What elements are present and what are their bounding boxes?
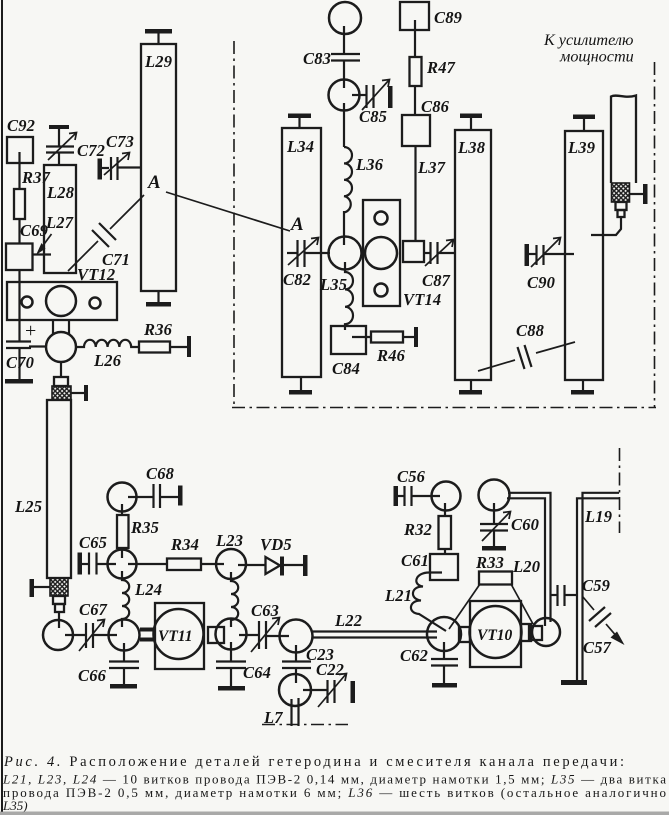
capacitor C88 plates: [518, 347, 525, 369]
coil from L23 down: [231, 572, 238, 627]
VT12 leads to can: [52, 320, 54, 334]
svg-text:A: A: [147, 172, 161, 193]
VT11 right pad: [208, 627, 224, 643]
diode VD5: [266, 557, 281, 574]
svg-text:L19: L19: [584, 507, 612, 526]
svg-text:C90: C90: [527, 273, 555, 292]
trimmer C82 plates: [296, 240, 298, 267]
capacitor C71 plates: [92, 230, 109, 247]
coil L23 cup: [216, 549, 246, 579]
transistor VT10 body: [470, 606, 522, 658]
trimmer C85 plates: [365, 85, 367, 108]
dash-dot fragment right: [619, 448, 621, 533]
trimmer C60 wire: [493, 503, 495, 524]
VT10 left pad: [459, 627, 470, 642]
svg-text:L37: L37: [417, 158, 446, 177]
svg-text:C83: C83: [303, 49, 331, 68]
shield can L29: [141, 44, 176, 291]
svg-text:C63: C63: [251, 601, 279, 620]
capacitor C56 plates: [403, 486, 405, 506]
svg-text:C64: C64: [243, 663, 271, 682]
svg-text:L38: L38: [457, 138, 485, 157]
coax L25 bottom neck: [53, 596, 65, 604]
wire C90 to L39: [544, 253, 575, 255]
wire R32 to C61: [444, 549, 446, 554]
VT14 plate top hole: [375, 212, 388, 225]
svg-text:C86: C86: [421, 97, 450, 116]
capacitor C65 wire: [97, 563, 117, 565]
dash-dot frame bottom side: [232, 407, 656, 409]
wire node A to VT12 via C71: [110, 195, 144, 229]
svg-text:провода ПЭВ-2 0,5 мм, диаметр: провода ПЭВ-2 0,5 мм, диаметр намотки 6 …: [3, 785, 666, 800]
capacitor C63 plates: [258, 621, 260, 649]
transistor VT12 can: [46, 332, 76, 362]
capacitor C62 wire: [443, 642, 445, 659]
capacitor C67 wire: [65, 634, 86, 636]
svg-text:L27: L27: [45, 213, 74, 232]
twin lead L19: [583, 493, 620, 680]
trimmer C90 arrow: [531, 238, 560, 267]
transistor VT10 plate: [470, 601, 521, 667]
coax L25 bottom knurl (hatched): [50, 578, 68, 596]
wire C62 to ground: [443, 665, 445, 683]
svg-text:L23: L23: [215, 531, 243, 550]
trimmer C90 plates: [535, 245, 537, 265]
terminal of R46: [414, 327, 418, 347]
wire C83 down: [343, 61, 345, 88]
coil cup above C60: [479, 480, 510, 511]
ground of L34: [300, 377, 302, 390]
diode VD5 terminal: [303, 555, 308, 576]
capacitor C68 terminal: [178, 486, 183, 506]
coil under L35: [345, 262, 353, 330]
capacitor C57 arrowhead: [611, 632, 625, 646]
inductor L24: [122, 571, 129, 627]
wire C73 to L29: [118, 166, 142, 168]
trimmer C72 terminal: [49, 125, 69, 129]
L39 top terminal: [573, 115, 595, 120]
wire R36 to terminal: [170, 346, 187, 348]
capacitor C57 wire: [583, 597, 594, 610]
coil cup second: [329, 80, 360, 111]
svg-text:L20: L20: [512, 557, 540, 576]
VT14 transistor body: [365, 237, 397, 269]
svg-text:C84: C84: [332, 359, 360, 378]
wire C87 to L38: [438, 252, 457, 254]
shield can L28: [44, 165, 76, 273]
wire R46 to terminal: [403, 336, 415, 338]
svg-text:C73: C73: [106, 132, 134, 151]
svg-text:C88: C88: [516, 321, 544, 340]
transistor VT14 mounting plate: [363, 200, 400, 306]
inductor L21: [411, 573, 446, 632]
wire R47 to C86: [414, 86, 416, 115]
ground of C64: [218, 686, 245, 691]
resistor R34: [167, 559, 201, 571]
svg-text:C61: C61: [401, 551, 429, 570]
transistor VT11 plate: [155, 603, 204, 669]
coil cup left of VT11: [109, 620, 140, 651]
svg-text:C65: C65: [79, 533, 107, 552]
trimmer C85 arrow: [362, 80, 389, 110]
terminal of R36: [187, 336, 191, 357]
coax to PA neck: [616, 202, 627, 210]
svg-text:L34: L34: [286, 137, 314, 156]
VT10 right leads: [521, 624, 531, 641]
scan edge grey bar: [0, 812, 669, 815]
resistor R46: [371, 332, 403, 343]
capacitor C63 arrow: [251, 618, 279, 652]
capacitor C68 plates: [152, 484, 154, 508]
svg-text:C57: C57: [583, 638, 612, 657]
wire R33 left lead: [449, 584, 480, 629]
svg-text:C72: C72: [77, 141, 105, 160]
svg-text:R34: R34: [170, 535, 199, 554]
capacitor C56 terminal: [394, 486, 399, 506]
coil L35 cup: [329, 237, 362, 270]
trimmer C82 arrow: [288, 238, 318, 265]
mixer cup C62: [427, 617, 461, 651]
wire C82 to L35: [305, 252, 331, 254]
capacitor C84: [331, 326, 366, 354]
twin lead from cup to VT10 right cup: [508, 493, 551, 622]
wire L36 to L35: [343, 211, 345, 245]
diode VD5 wire2: [284, 564, 303, 566]
svg-text:L28: L28: [46, 183, 74, 202]
coil cup top: [329, 2, 361, 34]
wire C92 to R37: [18, 152, 20, 190]
capacitor C69: [6, 244, 33, 271]
coil cup right of VT10: [532, 618, 560, 646]
trimmer C87 wire: [424, 252, 431, 254]
resistor R32: [439, 516, 452, 549]
capacitor C66 plates: [109, 660, 139, 662]
svg-text:VT10: VT10: [477, 627, 513, 644]
dash-dot frame right side: [654, 62, 656, 407]
inductor L36: [344, 147, 352, 212]
svg-text:C62: C62: [400, 646, 428, 665]
capacitor C22 plates: [326, 680, 328, 703]
diode VD5 wire: [238, 564, 266, 566]
wire VT12 to C70: [29, 345, 46, 347]
shield can L34: [282, 128, 321, 377]
capacitor C59 wire: [551, 594, 558, 596]
wire R33 right lead (L20): [511, 584, 533, 624]
terminal left of L25 bottom: [30, 579, 35, 597]
shield can L39: [565, 131, 603, 380]
capacitor C23 plates: [282, 660, 311, 662]
svg-text:C82: C82: [283, 270, 311, 289]
capacitor C63 wire2: [266, 635, 289, 637]
svg-text:C85: C85: [359, 107, 387, 126]
dash-dot frame left side: [233, 41, 235, 407]
svg-text:мощности: мощности: [559, 48, 634, 66]
trimmer C90 terminal: [525, 244, 530, 266]
svg-text:C59: C59: [582, 576, 610, 595]
coil cup above R32: [432, 482, 461, 511]
coax plug collar: [54, 377, 68, 386]
capacitor C62 plates: [431, 658, 458, 660]
capacitor C73 arrow: [104, 153, 129, 175]
coil cup above R35: [108, 483, 137, 512]
resistor R36: [139, 342, 170, 353]
capacitor C65 plates: [88, 553, 90, 575]
capacitor C57 plates: [589, 607, 605, 621]
VT12 plate centre hole: [46, 286, 76, 316]
svg-text:L21: L21: [384, 586, 412, 605]
coil cup right of VT11: [216, 619, 247, 650]
wire cup2 to R34: [128, 563, 167, 565]
svg-text:VT14: VT14: [403, 290, 441, 309]
trimmer C82 wire stub: [287, 252, 298, 254]
capacitor C67 plates: [85, 623, 87, 648]
svg-text:A: A: [290, 214, 304, 235]
terminal right of coax plug: [71, 392, 84, 394]
ground of C66: [110, 684, 137, 689]
wire C60 to ground: [493, 530, 495, 546]
shield can L38: [455, 130, 491, 380]
capacitor C64 plates: [216, 660, 246, 662]
dash-dot fragment below L7: [262, 724, 348, 726]
coax plug knurl (hatched): [52, 386, 71, 400]
ground of C62: [432, 683, 457, 688]
wire cup to R35: [121, 504, 123, 515]
capacitor C65 terminal: [78, 553, 83, 575]
svg-text:L29: L29: [144, 52, 172, 71]
wire cup to R32: [444, 503, 446, 516]
resistor R37: [14, 189, 25, 219]
svg-text:R46: R46: [376, 346, 406, 365]
svg-text:L35: L35: [319, 275, 347, 294]
svg-text:L25: L25: [14, 497, 42, 516]
svg-text:C56: C56: [397, 467, 426, 486]
transistor VT11 body: [154, 609, 204, 659]
svg-text:L24: L24: [134, 580, 162, 599]
trimmer C60 arrow: [482, 512, 510, 541]
svg-text:L39: L39: [567, 138, 595, 157]
svg-text:R33: R33: [475, 553, 504, 572]
wire R37 to C69: [18, 219, 20, 244]
wire circle to L36: [343, 103, 345, 147]
ground of L39: [582, 380, 584, 390]
svg-text:L35): L35): [2, 798, 28, 813]
trimmer C72 arrow: [48, 133, 76, 160]
capacitor C73 plates: [110, 157, 112, 180]
wire R35 to cup2: [121, 548, 123, 558]
capacitor C61: [430, 554, 458, 580]
terminal right of PA coax: [629, 193, 643, 195]
ground of C70: [5, 379, 33, 384]
capacitor C92: [7, 137, 33, 163]
wire VT12 to coax plug: [60, 362, 62, 377]
capacitor C59 plates: [556, 585, 558, 606]
wire R34 to L23: [201, 563, 224, 565]
svg-text:C68: C68: [146, 464, 174, 483]
transistor VT12 mounting plate: [7, 282, 117, 320]
capacitor C68 wire: [128, 496, 153, 498]
svg-text:C67: C67: [79, 600, 108, 619]
coil L27 stub: [32, 253, 51, 255]
svg-text:C92: C92: [7, 116, 35, 135]
ground of L38: [470, 380, 472, 390]
svg-text:VD5: VD5: [260, 535, 292, 554]
page left border rule: [1, 0, 3, 812]
ground of L19: [561, 680, 587, 685]
svg-text:R47: R47: [426, 58, 456, 77]
capacitor C67 arrow: [79, 620, 104, 651]
svg-text:L26: L26: [93, 351, 122, 370]
svg-text:C87: C87: [422, 271, 451, 290]
VT12 plate left hole: [22, 297, 33, 308]
wire C23 to L7: [295, 668, 297, 683]
wire coax to L39: [591, 217, 621, 235]
capacitor C67 wire2: [93, 634, 117, 636]
svg-text:C66: C66: [78, 666, 107, 685]
coax cable L25 body: [47, 400, 71, 578]
capacitor C22 arrow: [318, 674, 346, 707]
svg-text:R32: R32: [403, 520, 432, 539]
wire C64 to ground: [230, 668, 232, 686]
svg-text:VT11: VT11: [158, 628, 192, 645]
trimmer C87 plates: [429, 242, 431, 264]
ground of L29: [157, 291, 159, 302]
coax to PA knurl (hatched): [612, 183, 630, 202]
wire C84 to R46: [352, 336, 371, 338]
trimmer C72 plates: [46, 145, 74, 147]
capacitor C23 wire: [295, 645, 297, 661]
VT11 left leads: [140, 628, 155, 632]
L27 pointer arrow: [39, 234, 52, 251]
trimmer C85 terminal: [388, 86, 393, 108]
resistor R33: [479, 572, 512, 585]
svg-text:Рис. 4. Расположение деталей г: Рис. 4. Расположение деталей гетеродина …: [3, 754, 624, 770]
capacitor C56 wire: [412, 495, 441, 497]
capacitor C59 wire2: [565, 594, 578, 596]
trimmer C87 arrow: [425, 240, 453, 266]
oscillator cup left: [43, 620, 73, 650]
VT12 plate right hole: [90, 298, 101, 309]
wire C70 to ground: [18, 348, 20, 379]
capacitor C88 wire: [478, 360, 515, 371]
wire to C83: [343, 26, 345, 53]
capacitor C22 terminal: [351, 681, 356, 703]
wire C66 to ground: [123, 668, 125, 684]
svg-text:R36: R36: [143, 320, 173, 339]
capacitor C73 terminal: [98, 159, 103, 180]
inductor L26: [76, 340, 138, 347]
capacitor C83 plates: [331, 53, 360, 55]
svg-text:C70: C70: [6, 353, 34, 372]
wire C89 to R47: [414, 20, 416, 57]
capacitor C64 wire: [230, 642, 232, 661]
coil cup left of R34: [108, 550, 137, 579]
svg-text:+: +: [25, 320, 36, 342]
wire node A to node A of L34: [166, 192, 290, 231]
wire L37: [414, 146, 416, 241]
L29 top terminal: [145, 29, 172, 34]
svg-text:C60: C60: [511, 515, 539, 534]
capacitor C22 wire: [303, 689, 327, 691]
resistor R47: [410, 57, 422, 86]
svg-text:C22: C22: [316, 660, 344, 679]
trimmer C60 plates: [480, 523, 508, 525]
trimmer C85 wire: [352, 94, 367, 96]
capacitor C66 wire: [123, 643, 125, 661]
capacitor C70 plates: [6, 340, 31, 342]
capacitor C63 wire: [239, 634, 259, 636]
wire C69 down to C70: [18, 270, 20, 341]
L34 top terminal: [288, 114, 311, 119]
mixer cup: [280, 620, 313, 653]
svg-text:R35: R35: [130, 518, 159, 537]
svg-text:L22: L22: [334, 611, 362, 630]
capacitor C86: [402, 115, 430, 146]
svg-text:C89: C89: [434, 8, 462, 27]
resistor R35: [117, 515, 129, 548]
line L22 (twin lead): [312, 630, 437, 632]
svg-text:L36: L36: [355, 155, 384, 174]
L7 twin leads down: [290, 699, 292, 726]
ground of C60: [482, 546, 506, 551]
capacitor C89: [400, 2, 429, 30]
coil L7 cup: [279, 674, 311, 706]
svg-text:К усилителю: К усилителю: [543, 31, 633, 49]
VT14 plate bottom hole: [375, 284, 388, 297]
capacitor C68 wire2: [160, 496, 178, 498]
coax to PA body: [611, 96, 636, 184]
L38 top terminal: [460, 114, 482, 119]
pad square right of VT14: [403, 241, 424, 262]
